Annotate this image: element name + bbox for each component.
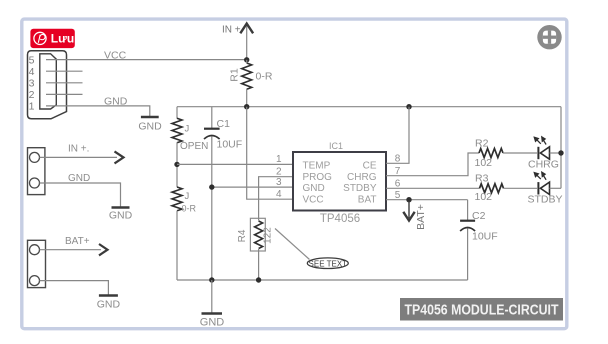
svg-text:1: 1 bbox=[29, 101, 35, 113]
wire IC pin6 STDBY bbox=[386, 187, 480, 189]
svg-text:10UF: 10UF bbox=[472, 231, 498, 243]
svg-text:GND: GND bbox=[104, 95, 128, 107]
wire left column top bbox=[176, 107, 178, 119]
usb connector inner cavity bbox=[40, 54, 57, 109]
svg-text:4: 4 bbox=[29, 66, 35, 78]
wire right rail bbox=[560, 107, 562, 189]
svg-text:GND: GND bbox=[138, 121, 162, 133]
svg-text:BAT+: BAT+ bbox=[65, 236, 90, 247]
svg-text:R2: R2 bbox=[475, 138, 489, 150]
wire IN+ arrow bbox=[40, 156, 118, 158]
wire BAT+ arrow bbox=[40, 249, 102, 251]
svg-text:J: J bbox=[185, 191, 190, 202]
callout line SEE TEXT bbox=[275, 229, 310, 260]
svg-text:CHRG: CHRG bbox=[347, 172, 377, 183]
junction dot R4 bottom bbox=[256, 277, 261, 282]
svg-text:R1: R1 bbox=[229, 68, 241, 82]
svg-text:GND: GND bbox=[97, 299, 121, 311]
svg-text:3: 3 bbox=[276, 177, 282, 188]
svg-text:TP4056 MODULE-CIRCUIT: TP4056 MODULE-CIRCUIT bbox=[405, 302, 559, 319]
svg-text:SEE TEXT: SEE TEXT bbox=[309, 259, 348, 268]
resistor R1 bbox=[242, 63, 252, 89]
move icon top right bbox=[537, 25, 561, 49]
wire IC pin5 BAT bbox=[386, 199, 468, 201]
wire usb pin3 stub bbox=[46, 82, 83, 84]
wire R1 bottom bbox=[246, 89, 248, 107]
wire IC pin1 TEMP bbox=[177, 163, 293, 165]
svg-text:GND: GND bbox=[68, 173, 90, 184]
ground symbol main bbox=[211, 280, 213, 313]
resistor J 0-R bbox=[172, 187, 182, 211]
wire GND usb pin1 bbox=[46, 106, 150, 116]
capacitor C1 bbox=[211, 107, 213, 128]
op IC U1 box bbox=[293, 152, 386, 211]
svg-text:J: J bbox=[185, 124, 190, 135]
svg-text:TEMP: TEMP bbox=[303, 160, 331, 171]
svg-text:R3: R3 bbox=[475, 172, 489, 184]
svg-text:2: 2 bbox=[276, 166, 282, 177]
svg-text:GND: GND bbox=[109, 210, 133, 222]
svg-text:3: 3 bbox=[29, 78, 35, 90]
wire R2 to LED bbox=[503, 152, 537, 154]
svg-text:CE: CE bbox=[363, 160, 377, 171]
svg-text:5: 5 bbox=[395, 190, 401, 201]
svg-text:4: 4 bbox=[276, 189, 282, 200]
resistor J OPEN bbox=[172, 118, 182, 143]
junction dot VCC/R1 bbox=[244, 57, 249, 62]
svg-text:BAT+: BAT+ bbox=[415, 204, 427, 230]
ground symbol usb bbox=[141, 116, 159, 118]
node IN+ arrow top bbox=[246, 24, 248, 60]
connector X1 IN bbox=[28, 148, 45, 195]
svg-text:5: 5 bbox=[29, 54, 35, 66]
junction dot CHRG rail bbox=[558, 150, 563, 155]
wire conn1 GND bbox=[40, 183, 121, 207]
resistor R4 box bbox=[250, 218, 265, 251]
wire IC pin7 CHRG to R2 bbox=[386, 153, 479, 176]
svg-text:2: 2 bbox=[29, 89, 35, 101]
svg-text:IN +.: IN +. bbox=[68, 144, 89, 155]
svg-text:R4: R4 bbox=[237, 229, 248, 242]
resistor R3 bbox=[480, 184, 504, 193]
usb connector J-USB outer shell bbox=[28, 51, 67, 119]
junction dot C1/pin3 bbox=[209, 184, 214, 189]
svg-text:CHRG: CHRG bbox=[528, 159, 559, 171]
svg-text:0-R: 0-R bbox=[256, 71, 273, 83]
svg-text:10UF: 10UF bbox=[217, 139, 243, 151]
ground symbol conn2 bbox=[99, 294, 118, 296]
junction dot R1 bottom bbox=[244, 104, 249, 109]
svg-text:102: 102 bbox=[475, 191, 493, 203]
wire IC pin2 PROG with R4 riser bbox=[259, 177, 293, 219]
svg-text:OPEN: OPEN bbox=[180, 141, 208, 152]
svg-text:VCC: VCC bbox=[104, 50, 127, 62]
wire conn2 GND bbox=[40, 281, 109, 295]
capacitor C2 bbox=[467, 200, 469, 220]
svg-text:C2: C2 bbox=[472, 210, 486, 222]
wire LED STDBY to rail bbox=[550, 187, 562, 189]
wire IC pin3 GND bbox=[212, 186, 293, 188]
wire bottom bus bbox=[177, 279, 468, 281]
ground symbol conn1 bbox=[112, 206, 130, 208]
svg-text:102: 102 bbox=[475, 157, 493, 169]
junction dot pin1 bbox=[174, 162, 179, 167]
pinterest save button bbox=[30, 29, 74, 48]
node BAT+ arrow down bbox=[408, 201, 410, 218]
wire usb pin2 stub bbox=[46, 93, 83, 95]
svg-text:IN +: IN + bbox=[222, 24, 241, 35]
svg-text:8: 8 bbox=[395, 154, 401, 165]
svg-text:TP4056: TP4056 bbox=[320, 213, 360, 225]
wire IC pin4 VCC riser bbox=[247, 107, 293, 200]
junction dot pin8 riser on bus bbox=[406, 104, 411, 109]
svg-text:STDBY: STDBY bbox=[343, 183, 377, 194]
svg-text:VCC: VCC bbox=[303, 194, 324, 205]
svg-text:PROG: PROG bbox=[303, 172, 333, 183]
wire left column bottom bbox=[176, 211, 178, 280]
wire LED CHRG to rail bbox=[550, 152, 562, 154]
junction dot pin5 bbox=[406, 197, 411, 202]
svg-text:7: 7 bbox=[395, 166, 401, 177]
svg-text:C1: C1 bbox=[217, 118, 231, 130]
svg-text:GND: GND bbox=[200, 317, 225, 329]
callout SEE TEXT bbox=[307, 258, 348, 269]
svg-text:BAT: BAT bbox=[358, 194, 377, 205]
svg-text:6: 6 bbox=[395, 179, 401, 190]
LED CHRG bbox=[537, 147, 539, 159]
svg-text:0-R: 0-R bbox=[182, 203, 197, 213]
LED STDBY bbox=[537, 182, 539, 194]
svg-text:122: 122 bbox=[263, 227, 274, 244]
wire R3 to LED bbox=[504, 187, 538, 189]
svg-text:1: 1 bbox=[276, 154, 282, 165]
svg-text:Lưu: Lưu bbox=[51, 32, 74, 46]
svg-text:STDBY: STDBY bbox=[528, 194, 563, 206]
svg-text:GND: GND bbox=[303, 183, 325, 194]
wire top bus bbox=[177, 106, 561, 108]
title badge TP4056 MODULE-CIRCUIT bbox=[400, 298, 563, 321]
resistor R2 bbox=[479, 149, 503, 158]
wire VCC net usb pin5 to R1 top bbox=[46, 59, 247, 61]
wire left column mid bbox=[176, 143, 178, 188]
connector X2 BAT bbox=[28, 240, 46, 287]
svg-text:IC1: IC1 bbox=[329, 141, 343, 151]
wire IC pin8 CE riser bbox=[386, 107, 409, 164]
wire R4 bottom bbox=[258, 249, 260, 280]
junction dot gnd column bbox=[209, 277, 214, 282]
wire usb pin4 stub bbox=[46, 70, 83, 72]
